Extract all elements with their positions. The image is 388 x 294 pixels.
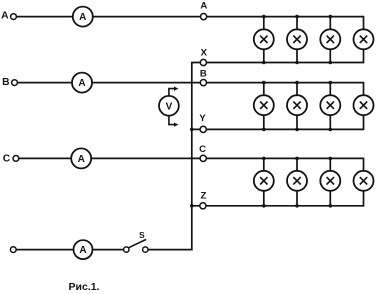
- svg-text:C: C: [3, 153, 11, 164]
- wire lamp column 4 group 1: [363, 16, 365, 64]
- junction dots group 3 bottom: [262, 204, 332, 208]
- svg-text:A: A: [1, 10, 9, 21]
- wire lamp column 2 group 2: [296, 83, 298, 130]
- wire lamp column 2 group 1: [296, 17, 298, 63]
- wire phase C line: [19, 157, 364, 159]
- lamp EL6 group 2: [287, 95, 307, 115]
- terminal node Z: [200, 203, 206, 209]
- junction dot bus node Z: [190, 204, 194, 208]
- svg-text:X: X: [201, 47, 208, 58]
- voltmeter probe bottom arrow: [169, 116, 179, 127]
- terminal node A: [201, 14, 207, 20]
- lamp EL11 group 3: [320, 171, 340, 191]
- switch S blade: [128, 239, 146, 247]
- lamp EL12 group 3: [354, 171, 374, 191]
- wire lamp column 1 group 1: [263, 17, 265, 63]
- wire node Z bus: [192, 205, 364, 207]
- terminal node B: [200, 80, 206, 86]
- voltmeter PV1: [159, 96, 179, 116]
- junction dots group 1 bottom: [262, 61, 332, 65]
- lamp EL7 group 2: [320, 95, 340, 115]
- wire node Y bus: [192, 128, 364, 130]
- wire lamp column 4 group 3: [363, 158, 365, 207]
- terminal phase C input: [13, 156, 19, 162]
- terminal node C: [200, 155, 206, 161]
- wire lamp column 1 group 2: [263, 83, 265, 130]
- svg-text:C: C: [199, 144, 206, 155]
- svg-text:A: A: [78, 154, 85, 165]
- wire lamp column 3 group 2: [329, 83, 331, 130]
- terminal node X: [200, 59, 206, 65]
- wire neutral right segment: [148, 249, 193, 251]
- wire lamp column 3 group 3: [329, 158, 331, 205]
- svg-text:V: V: [166, 101, 173, 112]
- ammeter PA4 neutral: [74, 240, 93, 259]
- wire lamp column 3 group 1: [329, 17, 331, 63]
- svg-text:B: B: [200, 68, 207, 79]
- svg-text:Y: Y: [199, 113, 206, 124]
- ammeter PA3 phase C: [71, 148, 91, 168]
- junction dots group 3 top: [262, 157, 332, 161]
- ammeter PA2 phase B: [72, 73, 92, 93]
- lamp EL2 group 1: [287, 29, 307, 49]
- svg-text:A: A: [79, 245, 86, 256]
- wire lamp column 1 group 3: [263, 158, 265, 205]
- terminal neutral input: [10, 247, 16, 253]
- lamp EL10 group 3: [287, 171, 307, 191]
- lamp EL9 group 3: [254, 171, 274, 191]
- wire lamp column 2 group 3: [296, 158, 298, 205]
- ammeter PA1 phase A: [73, 7, 93, 27]
- svg-text:Z: Z: [200, 190, 206, 201]
- voltmeter probe top arrow: [169, 87, 179, 96]
- svg-text:B: B: [2, 77, 9, 88]
- switch S contacts: [124, 247, 148, 252]
- junction dots group 2 bottom: [262, 128, 332, 132]
- svg-text:Рис.1.: Рис.1.: [69, 281, 100, 293]
- lamp EL5 group 2: [254, 95, 274, 115]
- svg-text:A: A: [79, 12, 86, 23]
- terminal node Y: [200, 126, 206, 132]
- svg-text:S: S: [139, 230, 145, 240]
- wire phase B line: [17, 82, 363, 84]
- junction dot bus node Y: [190, 128, 194, 132]
- terminal phase A input: [11, 14, 17, 20]
- svg-text:A: A: [78, 78, 85, 89]
- terminal phase B input: [12, 80, 18, 86]
- lamp EL8 group 2: [354, 95, 374, 115]
- wire vertical star bus: [191, 62, 193, 251]
- lamp EL4 group 1: [354, 29, 374, 49]
- wire node X bus: [192, 62, 364, 64]
- svg-text:A: A: [200, 1, 207, 12]
- lamp EL1 group 1: [254, 29, 274, 49]
- wire lamp column 4 group 2: [363, 82, 365, 130]
- junction dots group 2 top: [262, 81, 332, 85]
- junction dots group 1 top: [262, 15, 332, 19]
- wire phase A line: [16, 16, 363, 18]
- lamp EL3 group 1: [320, 29, 340, 49]
- wire neutral left segment: [16, 249, 124, 251]
